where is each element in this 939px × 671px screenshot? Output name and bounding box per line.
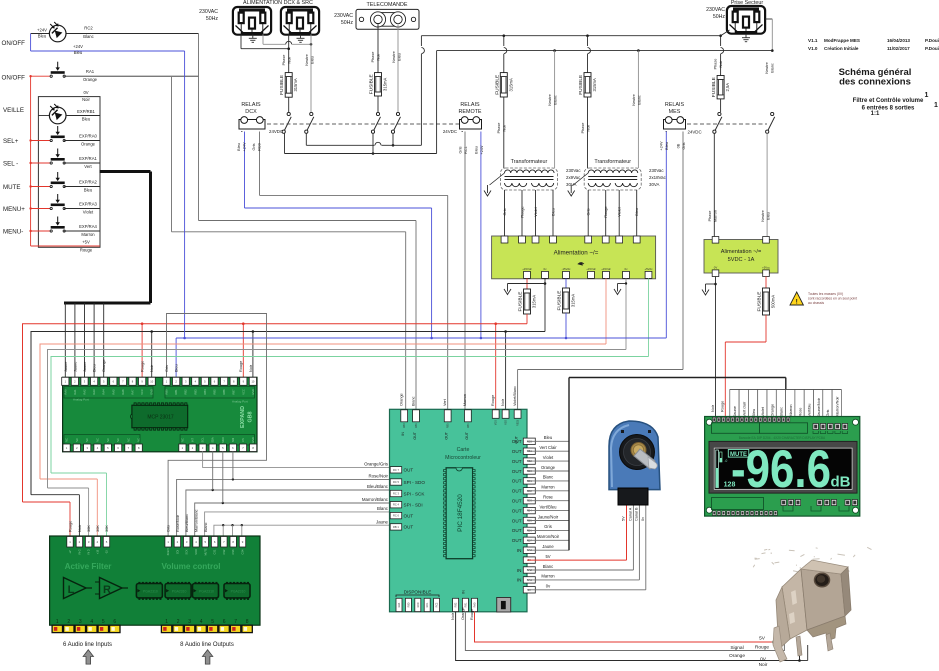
svg-text:RC 7: RC 7: [393, 468, 399, 472]
svg-text:Vert Clair: Vert Clair: [539, 445, 557, 450]
svg-text:Création Initiale: Création Initiale: [824, 46, 859, 51]
5VDC 0V wire: [715, 277, 717, 422]
svg-text:Gris: Gris: [459, 146, 463, 153]
svg-text:Blanc: Blanc: [543, 564, 553, 569]
secondary wire: [618, 190, 620, 236]
svg-text:OUT: OUT: [512, 538, 522, 543]
RCA jack: [173, 625, 183, 632]
ground prise: [742, 34, 750, 42]
fusible F8: [757, 288, 776, 315]
svg-text:ZCEN: ZCEN: [167, 548, 170, 555]
wire to EXPAND pin: [84, 303, 86, 377]
svg-text:Rose/Noir: Rose/Noir: [176, 514, 180, 532]
svg-text:Jaune: Jaune: [376, 519, 389, 524]
svg-text:230Vac: 230Vac: [566, 168, 581, 173]
secondary wire: [504, 190, 506, 236]
svg-text:RC0: RC0: [258, 143, 262, 151]
svg-text:Marron: Marron: [81, 232, 95, 237]
svg-text:OUT: OUT: [512, 459, 522, 464]
button EXP/RA4: [31, 230, 52, 232]
svg-text:Toutes les masses (0V): Toutes les masses (0V): [808, 292, 843, 296]
svg-text:Blanc: Blanc: [554, 95, 558, 105]
svg-text:+24V: +24V: [73, 44, 83, 49]
svg-text:GND: GND: [251, 389, 255, 395]
svg-text:OUT: OUT: [404, 525, 414, 530]
svg-text:OUT: OUT: [512, 449, 522, 454]
contact outputs: [284, 133, 286, 153]
svg-text:Marron/Noir: Marron/Noir: [836, 396, 840, 417]
svg-text:RC 4: RC 4: [393, 503, 399, 507]
svg-text:Marron: Marron: [541, 485, 555, 490]
svg-text:MENU+: MENU+: [3, 206, 25, 213]
svg-text:Bleu/Blanc: Bleu/Blanc: [367, 484, 389, 489]
svg-text:Phase: Phase: [497, 123, 501, 134]
svg-text:Rose: Rose: [798, 408, 802, 417]
ground: [504, 284, 511, 295]
svg-text:RC 3: RC 3: [393, 492, 399, 496]
svg-text:IN: IN: [462, 590, 466, 594]
svg-text:+V: +V: [69, 550, 72, 553]
svg-text:FUSIBLE: FUSIBLE: [279, 75, 285, 95]
svg-text:3: 3: [79, 619, 82, 625]
secondary wire: [587, 190, 589, 236]
prise wires: [721, 30, 730, 36]
svg-text:SEL -: SEL -: [3, 160, 18, 167]
svg-text:Jaune: Jaune: [542, 544, 554, 549]
svg-text:RB3: RB3: [193, 389, 197, 395]
svg-text:Rouge: Rouge: [141, 361, 145, 372]
svg-text:CS3: CS3: [232, 549, 235, 554]
+5V rouge bottom: [31, 245, 100, 247]
svg-text:1: 1: [925, 92, 929, 99]
svg-text:1:1: 1:1: [871, 111, 880, 117]
svg-text:CS4: CS4: [242, 549, 245, 554]
svg-text:315mA: 315mA: [532, 295, 537, 308]
svg-text:R: R: [103, 584, 111, 596]
svg-text:CS2: CS2: [223, 549, 226, 554]
svg-text:Analog Port: Analog Port: [73, 398, 89, 402]
svg-text:0V: 0V: [83, 90, 88, 95]
svg-text:RB23: RB23: [517, 419, 520, 426]
svg-text:OUT: OUT: [512, 508, 522, 513]
wire canal A: [527, 569, 633, 571]
svg-text:EXP/RA4: EXP/RA4: [79, 224, 97, 229]
svg-text:RELAIS: RELAIS: [460, 102, 480, 108]
red +5V rail: [30, 76, 32, 246]
svg-text:Bleu: Bleu: [82, 117, 91, 122]
svg-text:+24V: +24V: [243, 142, 247, 151]
svg-text:IN D: IN D: [88, 549, 91, 554]
svg-text:Jaune: Jaune: [733, 406, 737, 416]
svg-text:Noir: Noir: [377, 53, 381, 61]
wire +24V row1: [31, 33, 50, 35]
svg-text:Rouge: Rouge: [604, 206, 608, 217]
svg-text:Jaune: Jaune: [64, 362, 68, 372]
bus gris: [48, 350, 627, 489]
svg-text:NC: NC: [106, 438, 110, 442]
svg-text:11/02/2017: 11/02/2017: [887, 46, 910, 51]
svg-text:Jaune: Jaune: [83, 362, 87, 372]
svg-text:Blanc: Blanc: [780, 407, 784, 417]
PGA2310 chip: [224, 584, 250, 598]
RCA jack: [230, 625, 240, 632]
svg-text:ON/OFF: ON/OFF: [2, 40, 26, 47]
wire to EXPAND pin: [103, 303, 105, 377]
svg-text:Rouge: Rouge: [69, 521, 73, 532]
svg-text:Bleu: Bleu: [175, 364, 179, 372]
svg-text:RC1: RC1: [464, 146, 468, 154]
svg-text:5V: 5V: [545, 554, 550, 559]
svg-text:2: 2: [177, 619, 180, 625]
svg-text:RC0: RC0: [417, 602, 420, 607]
svg-text:IN: IN: [517, 548, 522, 553]
svg-text:CS1: CS1: [214, 549, 217, 554]
svg-text:+15Vdc: +15Vdc: [586, 267, 596, 271]
svg-text:Bleu: Bleu: [544, 435, 553, 440]
svg-text:1: 1: [165, 619, 168, 625]
svg-text:Noir: Noir: [150, 364, 154, 372]
svg-text:Violet: Violet: [543, 455, 554, 460]
svg-text:RA1: RA1: [86, 69, 95, 74]
contact DCX sw2: [305, 112, 314, 133]
svg-text:Rouge: Rouge: [721, 401, 725, 412]
svg-text:SCK: SCK: [186, 549, 189, 554]
thick cable bundle: [100, 170, 151, 173]
svg-text:dB: dB: [831, 474, 851, 491]
svg-text:Violet: Violet: [761, 406, 765, 416]
svg-text:315mA: 315mA: [571, 294, 576, 307]
svg-text:P.Douillard: P.Douillard: [925, 46, 939, 51]
svg-text:Blanc: Blanc: [204, 522, 208, 532]
svg-text:ModFrappe MES: ModFrappe MES: [824, 38, 860, 43]
svg-text:5: 5: [211, 619, 214, 625]
PGA2310 chip: [136, 584, 162, 598]
svg-text:NC: NC: [65, 438, 69, 442]
svg-text:NC: NC: [85, 438, 89, 442]
svg-text:Rouge: Rouge: [755, 645, 769, 651]
RCA jack: [75, 625, 85, 632]
svg-text:Analog Port: Analog Port: [232, 400, 248, 404]
bus bleu: [176, 337, 666, 339]
svg-text:0V: 0V: [714, 266, 718, 270]
svg-text:Violet/Blanc: Violet/Blanc: [513, 386, 517, 406]
svg-text:Bleu: Bleu: [84, 188, 93, 193]
opamp R: [100, 578, 123, 599]
svg-text:Orange: Orange: [770, 404, 774, 417]
svg-text:Carte: Carte: [457, 447, 470, 453]
RCA jack: [52, 625, 62, 632]
button EXP/RA2: [31, 186, 52, 188]
wire RA1 orange loop: [171, 77, 173, 232]
T1 phase wire: [503, 36, 505, 46]
svg-text:Blanc: Blanc: [411, 396, 415, 406]
svg-text:OUT: OUT: [512, 479, 522, 484]
bus vert: [51, 357, 649, 474]
svg-text:Noir: Noir: [82, 97, 90, 102]
svg-text:RB1: RB1: [174, 389, 178, 395]
svg-text:EXPAND: EXPAND: [240, 406, 246, 428]
svg-text:230VAC: 230VAC: [706, 7, 725, 13]
svg-text:PGA2310: PGA2310: [143, 590, 158, 594]
svg-text:Alimentation ~/=: Alimentation ~/=: [721, 249, 761, 255]
svg-text:Bleu: Bleu: [635, 208, 639, 216]
svg-text:RA3: RA3: [92, 389, 96, 395]
LED RC2: [49, 22, 66, 42]
svg-text:6 Audio line Inputs: 6 Audio line Inputs: [63, 642, 112, 648]
svg-text:5: 5: [102, 619, 105, 625]
svg-text:Jaune/Noir: Jaune/Noir: [817, 397, 821, 416]
svg-text:NC: NC: [96, 438, 100, 442]
svg-text:Phase: Phase: [371, 52, 375, 63]
svg-text:1: 1: [934, 102, 938, 109]
fusible F2: [369, 73, 388, 96]
svg-text:+5Vdc: +5Vdc: [644, 267, 653, 271]
RCA jack: [161, 625, 171, 632]
svg-text:RELAIS: RELAIS: [665, 102, 685, 108]
secondary wire: [605, 190, 607, 236]
svg-text:SDO: SDO: [221, 437, 225, 443]
IEC socket DCX: [233, 7, 271, 35]
svg-text:0v: 0v: [641, 517, 645, 521]
SPI rose/noir: [177, 479, 390, 536]
svg-text:DISPONIBLE: DISPONIBLE: [404, 590, 432, 595]
socket wires: [240, 34, 242, 48]
svg-text:Jaune: Jaune: [73, 362, 77, 372]
alimentation 5VDC: [704, 240, 778, 274]
bus noir: [31, 332, 545, 495]
svg-text:-0: -0: [725, 459, 728, 463]
svg-text:OUT: OUT: [512, 499, 522, 504]
gris loop EXPAND-volume: [167, 314, 267, 537]
svg-text:IN G: IN G: [78, 549, 81, 554]
svg-text:30K: 30K: [105, 525, 109, 532]
svg-text:Phase: Phase: [714, 59, 718, 70]
svg-text:Bleu: Bleu: [752, 409, 756, 417]
svg-text:FUSIBLE: FUSIBLE: [518, 292, 524, 312]
svg-text:GND: GND: [150, 389, 154, 395]
svg-text:Marron: Marron: [789, 404, 793, 416]
svg-text:Noir: Noir: [78, 524, 82, 532]
svg-text:Signal: Signal: [730, 645, 743, 651]
svg-text:Marron: Marron: [541, 574, 555, 579]
LCD display module: [705, 417, 860, 517]
fusible F5 2,5A: [711, 76, 730, 99]
svg-text:Gris: Gris: [165, 365, 169, 372]
PIC right bundle: [527, 440, 569, 442]
carte microcontroleur: [390, 409, 528, 612]
svg-text:Canal A: Canal A: [628, 507, 632, 521]
PIC 18F4520 chip: [446, 468, 473, 559]
svg-text:Marron/Blanc: Marron/Blanc: [362, 497, 389, 502]
wire salmon terminal5: [605, 278, 607, 344]
warning triangle: [790, 292, 803, 305]
wire orange IR: [465, 612, 784, 651]
svg-text:Jaune/Noir: Jaune/Noir: [538, 514, 559, 519]
svg-text:2,5A: 2,5A: [725, 83, 730, 92]
button RA1: [31, 75, 52, 77]
svg-text:Rouge: Rouge: [491, 395, 495, 406]
fusible F1: [279, 73, 298, 98]
svg-text:Noir: Noir: [759, 662, 768, 666]
svg-text:FUSIBLE: FUSIBLE: [557, 291, 563, 311]
svg-text:SDI: SDI: [176, 550, 179, 554]
button EXP/RA1: [31, 162, 52, 164]
svg-text:EXP/RA0: EXP/RA0: [79, 134, 97, 139]
svg-text:ON/OFF: ON/OFF: [2, 75, 26, 82]
svg-text:RA4: RA4: [398, 602, 401, 607]
svg-text:INT: INT: [191, 438, 195, 443]
svg-text:RA2: RA2: [83, 389, 87, 395]
svg-text:OUT: OUT: [465, 431, 469, 439]
svg-text:PGA2310: PGA2310: [231, 590, 246, 594]
svg-text:Blanc: Blanc: [83, 34, 93, 39]
svg-text:50Hz: 50Hz: [713, 14, 726, 20]
svg-text:OUT: OUT: [413, 431, 417, 439]
svg-text:RB5: RB5: [213, 389, 217, 395]
svg-text:RC2: RC2: [84, 26, 93, 31]
svg-text:2x18Vac: 2x18Vac: [649, 175, 667, 180]
svg-text:!: !: [796, 298, 798, 305]
wire rouge IR: [475, 612, 777, 642]
svg-text:Bleu: Bleu: [38, 34, 47, 39]
svg-text:V1.0: V1.0: [808, 46, 818, 51]
svg-text:FUSIBLE: FUSIBLE: [757, 292, 763, 312]
svg-text:-15Vdc: -15Vdc: [562, 267, 571, 271]
svg-text:EXP/RA3: EXP/RA3: [79, 202, 97, 207]
svg-text:Noir: Noir: [451, 612, 455, 620]
svg-text:Gris: Gris: [826, 409, 830, 416]
svg-text:VEILLE: VEILLE: [3, 107, 24, 114]
svg-text:Vert clair: Vert clair: [743, 401, 747, 417]
PGA2310 chip: [193, 584, 219, 598]
svg-text:MENU-: MENU-: [3, 228, 23, 235]
svg-text:Noir: Noir: [249, 364, 253, 372]
fusible F6: [518, 289, 537, 314]
MCP 23017 chip: [132, 405, 188, 428]
svg-text:+15Vdc: +15Vdc: [522, 267, 532, 271]
svg-text:Neutre: Neutre: [305, 54, 309, 65]
T2 phase wire: [587, 36, 589, 46]
arrow outputs: [202, 650, 212, 664]
svg-text:RA4: RA4: [102, 389, 106, 395]
fusible F7: [557, 288, 576, 313]
svg-text:GND: GND: [251, 437, 255, 443]
RCA jack: [110, 625, 120, 632]
svg-text:Bleu: Bleu: [475, 146, 479, 154]
svg-text:Gris: Gris: [587, 208, 591, 215]
svg-text:Rose: Rose: [543, 495, 553, 500]
svg-text:RB3: RB3: [415, 423, 418, 428]
svg-text:Violet: Violet: [83, 210, 94, 215]
svg-text:OUT: OUT: [512, 518, 522, 523]
wire vert terminal7: [648, 278, 650, 356]
wire to EXPAND pin: [74, 303, 76, 377]
svg-text:Gris: Gris: [544, 524, 552, 529]
ground transformer: [484, 185, 491, 196]
RCA jack: [64, 625, 74, 632]
svg-text:DCX: DCX: [245, 109, 257, 115]
svg-text:IN: IN: [517, 568, 522, 573]
svg-text:Noir: Noir: [288, 56, 292, 64]
svg-text:Orange: Orange: [729, 653, 745, 659]
svg-text:SDA: SDA: [211, 437, 215, 443]
arrow inputs: [83, 650, 93, 664]
wire noir IR: [456, 612, 800, 661]
ground transformer: [568, 185, 575, 196]
svg-text:RB 1: RB 1: [393, 525, 399, 529]
svg-text:5V: 5V: [759, 636, 766, 642]
svg-text:RC2: RC2: [436, 602, 439, 607]
svg-text:▉: ▉: [500, 601, 506, 610]
svg-text:SPI - SDO: SPI - SDO: [404, 480, 426, 485]
secondary wire: [535, 190, 537, 236]
svg-text:1: 1: [56, 619, 59, 625]
svg-text:PGA2310: PGA2310: [172, 590, 187, 594]
svg-text:Noir: Noir: [501, 398, 505, 406]
IEC socket SRC: [281, 7, 319, 35]
volume control board: [50, 536, 260, 625]
svg-text:230Vac: 230Vac: [649, 168, 664, 173]
button EXP/RA3: [31, 208, 52, 210]
svg-text:24VDC: 24VDC: [269, 129, 283, 134]
svg-text:2: 2: [67, 619, 70, 625]
phase rail: [421, 35, 720, 37]
svg-text:REMOTE: REMOTE: [458, 109, 481, 115]
svg-text:FUSIBLE: FUSIBLE: [494, 75, 500, 95]
svg-text:TELECOMANDE: TELECOMANDE: [366, 2, 407, 8]
svg-text:+24V: +24V: [37, 28, 47, 33]
svg-text:Orange: Orange: [102, 359, 106, 372]
wire RC2 blanc loop: [198, 34, 200, 221]
fusible F3: [494, 73, 513, 97]
svg-text:Transformateur: Transformateur: [594, 159, 631, 165]
svg-text:Vert: Vert: [443, 398, 447, 406]
svg-text:Rouge: Rouge: [470, 609, 474, 620]
svg-text:Phase: Phase: [581, 123, 585, 134]
svg-text:MES: MES: [669, 109, 681, 115]
svg-text:Orange: Orange: [81, 142, 96, 147]
RCA jack: [242, 625, 252, 632]
svg-text:500mA: 500mA: [771, 295, 776, 308]
relay coil wires: [244, 132, 246, 209]
svg-text:Bleu: Bleu: [93, 364, 97, 372]
wire 0v encoder: [527, 589, 646, 591]
svg-text:Vert/blu: Vert/blu: [808, 404, 812, 417]
SPI jaune: [214, 525, 390, 536]
svg-text:SPI - SCK: SPI - SCK: [404, 491, 426, 496]
svg-text:RC 5: RC 5: [393, 480, 399, 484]
alimentation block: [492, 236, 656, 279]
svg-text:Marron: Marron: [463, 394, 467, 406]
svg-text:RA0: RA0: [63, 389, 67, 395]
secondary wire: [636, 190, 638, 236]
svg-text:Phase: Phase: [282, 55, 286, 66]
contact TEL sw3: [371, 112, 380, 133]
svg-text:Violet: Violet: [534, 206, 538, 216]
svg-text:Neutre: Neutre: [632, 94, 636, 105]
svg-text:6: 6: [113, 619, 116, 625]
svg-text:+24V: +24V: [480, 145, 484, 154]
svg-text:5V: 5V: [622, 516, 626, 521]
svg-text:Alimentation ~/=: Alimentation ~/=: [554, 250, 599, 257]
svg-text:Volume control: Volume control: [162, 562, 221, 571]
svg-text:230VAC: 230VAC: [334, 13, 353, 19]
bus salmon: [40, 344, 606, 479]
svg-text:RB5: RB5: [447, 423, 450, 428]
svg-text:315mA: 315mA: [508, 78, 513, 91]
svg-text:PIC 18F4520: PIC 18F4520: [457, 494, 464, 532]
svg-text:RB7: RB7: [232, 389, 236, 395]
